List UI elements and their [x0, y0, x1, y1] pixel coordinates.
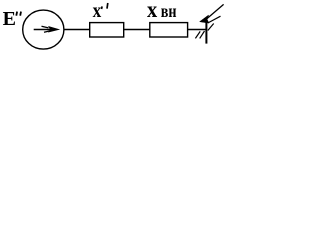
fault diagonal through bar — [208, 24, 214, 31]
short-circuit fault: terminal bar — [205, 22, 207, 44]
reactance box x″ — [90, 23, 124, 37]
fault arrow shaft — [206, 4, 224, 19]
fault arrow barb — [209, 16, 221, 22]
svg-text:вн: вн — [161, 1, 177, 21]
label хвн — [147, 0, 177, 22]
wire box2 to fault — [188, 29, 206, 31]
fault slash 2 — [200, 31, 205, 38]
wire box1 to box2 — [124, 29, 150, 31]
wire circle to box1 — [64, 29, 90, 31]
reactance box хвн — [150, 23, 188, 37]
svg-text:x: x — [93, 0, 102, 22]
EMF arrow — [34, 26, 59, 32]
fault slash 1 — [195, 31, 200, 38]
fault arrowhead — [200, 15, 209, 23]
EMF source circle — [23, 10, 64, 49]
label E″ — [3, 8, 21, 30]
label x″ — [93, 0, 108, 22]
svg-text:х: х — [147, 0, 158, 22]
svg-text:E: E — [3, 8, 16, 30]
